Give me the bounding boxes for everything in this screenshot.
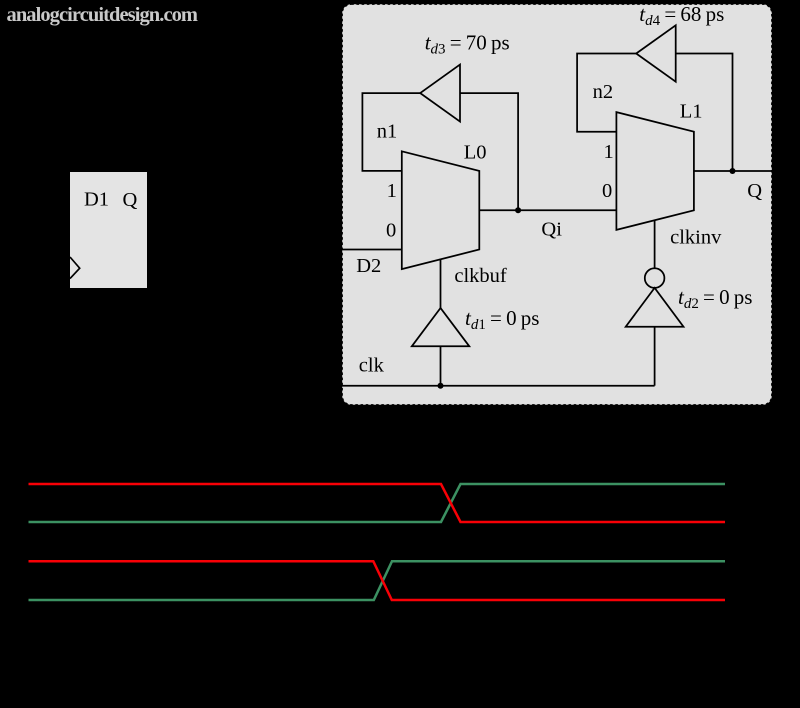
wire n1 loop (td3 output to L0 input 1) xyxy=(362,93,420,171)
inverter clkinv bubble xyxy=(645,268,665,288)
waveform red trace 2 xyxy=(29,561,726,600)
buffer td4 xyxy=(636,25,676,81)
svg-text:Q: Q xyxy=(747,180,762,202)
waveform green trace 2 xyxy=(29,561,726,600)
svg-text:L1: L1 xyxy=(680,101,703,123)
waveform red trace 1 xyxy=(29,484,726,522)
svg-text:clkinv: clkinv xyxy=(670,226,722,248)
wire clk xyxy=(342,385,655,387)
svg-text:0: 0 xyxy=(602,180,612,202)
svg-text:L0: L0 xyxy=(464,141,487,163)
node Qi junction dot xyxy=(515,207,521,213)
buffer td3 xyxy=(420,65,460,122)
svg-text:clkbuf: clkbuf xyxy=(454,265,507,287)
wire clkinv riser xyxy=(654,327,656,386)
wire clkinv output to L1 xyxy=(654,221,656,269)
flip-flop D1 body xyxy=(70,172,147,288)
svg-text:1: 1 xyxy=(387,180,397,202)
svg-text:0: 0 xyxy=(386,219,396,241)
dashed model box xyxy=(342,4,772,405)
svg-text:analogcircuitdesign.com: analogcircuitdesign.com xyxy=(7,4,199,26)
svg-text:D2: D2 xyxy=(356,255,381,277)
wire clkbuf input xyxy=(440,346,442,385)
svg-text:1: 1 xyxy=(604,141,614,163)
wire Q output xyxy=(694,170,772,172)
wire td4 input from Q feedback xyxy=(676,54,733,172)
wire D2 input xyxy=(342,249,402,251)
node Q junction dot xyxy=(730,168,736,174)
wire n2 loop (td4 output to L1 input 1) xyxy=(577,54,636,132)
wire td3 input from Qi feedback xyxy=(460,93,518,210)
waveform green trace 1 xyxy=(29,484,726,522)
svg-text:D1: D1 xyxy=(84,189,109,211)
node clk junction dot xyxy=(438,383,444,389)
svg-text:n1: n1 xyxy=(377,121,398,143)
svg-text:clk: clk xyxy=(359,354,385,376)
mux L1 xyxy=(616,112,694,230)
wire L0 clock stub xyxy=(440,259,442,308)
buffer clkbuf xyxy=(412,308,470,346)
flip-flop D1 clock chevron xyxy=(70,257,80,279)
wire Qi (L0 output to L1 input 0) xyxy=(479,209,616,211)
svg-text:n2: n2 xyxy=(593,81,614,103)
svg-text:Qi: Qi xyxy=(541,218,562,240)
mux L0 xyxy=(402,151,480,269)
svg-text:Q: Q xyxy=(123,189,138,211)
inverter clkinv triangle xyxy=(626,288,684,327)
